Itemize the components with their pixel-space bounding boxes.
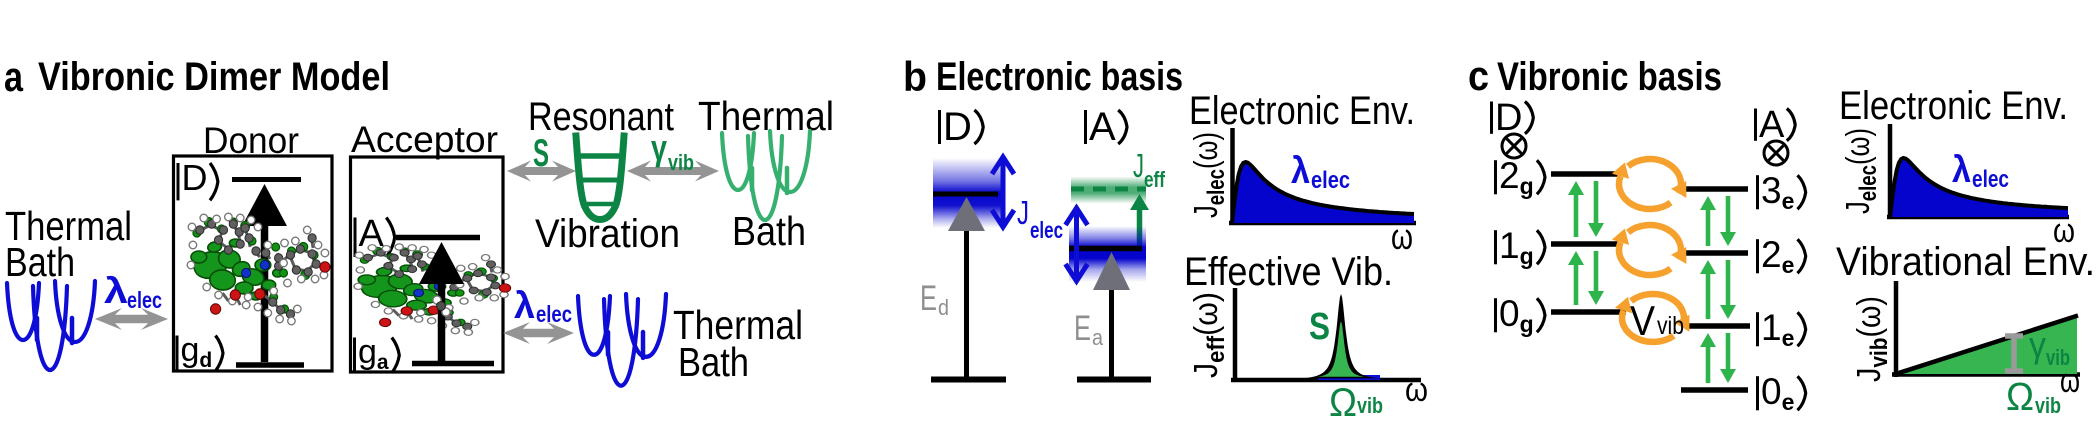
svg-text:Bath: Bath [5, 239, 75, 285]
svg-text:3: 3 [1761, 170, 1782, 211]
electronic spectral density axes panel b [1230, 128, 1235, 225]
svg-text:Donor: Donor [203, 120, 299, 161]
J_eff label [1133, 147, 1166, 192]
vibrational ladder arrows donor 1g-0g (green) [1574, 262, 1579, 305]
coupling label lambda_elec left [104, 270, 162, 313]
svg-text:E: E [1074, 309, 1091, 348]
donor excitation arrow [261, 222, 269, 362]
svg-text:2: 2 [1761, 234, 1782, 275]
ket |0_g> [1496, 293, 1546, 337]
svg-text:D: D [943, 105, 972, 149]
svg-text:vib: vib [668, 150, 694, 175]
acceptor molecule atoms overlapping arrow [433, 296, 450, 316]
svg-text:V: V [1630, 297, 1655, 344]
svg-text:vib: vib [1657, 312, 1684, 340]
svg-text:elec: elec [1311, 167, 1350, 194]
svg-text:Electronic basis: Electronic basis [936, 55, 1183, 99]
svg-text:g: g [1520, 173, 1534, 199]
svg-text:D: D [182, 157, 208, 198]
vibrational ladder arrows donor 2g-1g (green) [1574, 192, 1579, 237]
effective vib Lorentzian peak (green) [1301, 294, 1381, 378]
E_d transition arrow (gray head) [948, 197, 985, 231]
Omega_vib label panel c plot [2006, 376, 2061, 419]
thermal bath potential curves bottom (blue) [578, 294, 666, 386]
ket |1_g> [1496, 225, 1546, 269]
svg-text:Jeff(ω): Jeff(ω) [1187, 292, 1230, 378]
E_d label [920, 279, 949, 320]
V_vib label [1630, 297, 1684, 344]
acceptor ground level line [412, 361, 494, 367]
coupling arrow right (gray) [503, 322, 574, 344]
donor ket |D> panel b [940, 105, 984, 149]
svg-text:0: 0 [1499, 293, 1520, 334]
electronic spectral density curve panel b (blue) [1232, 162, 1414, 223]
svg-text:d: d [199, 349, 212, 372]
svg-text:Acceptor: Acceptor [351, 119, 498, 160]
svg-text:g: g [1520, 243, 1534, 269]
donor ground state ket |g_d> [177, 331, 223, 372]
svg-text:g: g [358, 333, 377, 371]
donor excited level line [232, 177, 301, 182]
E_a transition arrow (gray head) [1093, 252, 1130, 290]
ket |3_e> [1758, 170, 1806, 214]
svg-text:a: a [377, 351, 389, 374]
svg-text:d: d [938, 295, 949, 320]
electronic coupling fluctuation arrow (blue, acceptor) [1066, 208, 1088, 281]
svg-text:0: 0 [1761, 371, 1782, 412]
vibrational ladder arrows acceptor 3e-2e (green) [1706, 207, 1711, 246]
effective vib spectral density axes [1233, 288, 1238, 382]
svg-text:λ: λ [1952, 149, 1971, 190]
residual electronic density (blue line under peak) [1318, 375, 1380, 380]
coherent exchange cycle top (orange) [1628, 159, 1681, 193]
svg-text:Vibrational Env.: Vibrational Env. [1836, 240, 2095, 284]
electronic spectral density curve panel c (blue) [1890, 158, 2068, 217]
vibrational ladder arrows acceptor 2e-1e (green) [1706, 271, 1711, 319]
svg-text:e: e [1782, 188, 1795, 214]
coupling arrow left (gray) [95, 308, 168, 330]
svg-text:Vibronic basis: Vibronic basis [1497, 55, 1722, 99]
gamma_vib width marker (gray I-beam) [2005, 336, 2023, 371]
svg-text:Ω: Ω [1329, 381, 1357, 425]
donor vibrational level lines [1551, 171, 1618, 177]
svg-text:Electronic Env.: Electronic Env. [1189, 89, 1415, 133]
svg-text:vib: vib [1357, 393, 1383, 418]
svg-text:Vibronic Dimer Model: Vibronic Dimer Model [38, 55, 390, 99]
acceptor vibrational level lines [1681, 186, 1748, 192]
acceptor ground state ket |g_a> [355, 333, 400, 374]
thermal bath potential curves top right (green) [722, 131, 810, 220]
svg-text:e: e [1782, 325, 1795, 351]
acceptor level line panel b [1069, 246, 1142, 252]
svg-text:A: A [1759, 104, 1785, 146]
thermal bath potential curves left (blue) [7, 281, 95, 370]
svg-text:a: a [1092, 325, 1104, 350]
svg-text:vib: vib [2035, 393, 2061, 418]
coherent exchange cycle middle (orange) [1628, 225, 1681, 259]
ket |2_e> [1758, 234, 1806, 278]
donor ket |D> panel c [1492, 97, 1534, 139]
acceptor excitation arrow [438, 280, 446, 362]
svg-text:J: J [1133, 147, 1144, 184]
acceptor broadened level (blue gradient band) [1069, 226, 1146, 282]
svg-text:γ: γ [2029, 324, 2046, 365]
acceptor excited level line [396, 235, 480, 241]
donor ground line panel b [931, 377, 1006, 383]
vibrational ladder arrows acceptor 1e-0e (green) [1706, 344, 1711, 383]
Omega_vib label panel b plot [1329, 381, 1383, 425]
svg-text:Ω: Ω [2006, 376, 2034, 419]
J_elec label [1017, 194, 1063, 243]
svg-text:λ: λ [514, 285, 535, 326]
donor level line panel b [933, 192, 998, 197]
donor box [174, 156, 333, 371]
donor excited state ket |D> [178, 157, 218, 200]
lambda_elec label panel b plot [1291, 150, 1350, 194]
coupling arrow S (gray) [507, 161, 576, 182]
coherent exchange cycle bottom (orange) [1631, 294, 1684, 327]
coupling label lambda_elec right [514, 285, 572, 327]
donor broadened level (blue gradient band) [933, 158, 1002, 228]
vibrational spectral density axes panel c [1894, 281, 1899, 377]
svg-text:γ: γ [651, 127, 667, 168]
resonant mode potential (green parabola with levels) [576, 136, 624, 220]
svg-text:Bath: Bath [678, 339, 749, 385]
svg-text:2: 2 [1499, 155, 1520, 196]
svg-text:E: E [920, 279, 937, 318]
svg-text:ω: ω [1405, 371, 1428, 409]
svg-text:elec: elec [536, 301, 572, 327]
svg-text:Effective Vib.: Effective Vib. [1184, 250, 1393, 294]
ket |0_e> [1758, 371, 1806, 415]
svg-text:elec: elec [1030, 217, 1063, 243]
acceptor effective level (green gradient band) [1071, 177, 1146, 203]
svg-text:g: g [1520, 311, 1534, 337]
ket |1_e> [1758, 307, 1806, 351]
coupling arrow gamma_vib (gray) [627, 161, 719, 182]
acceptor ground line panel b [1077, 377, 1151, 383]
svg-text:b: b [903, 53, 927, 100]
svg-text:A: A [1089, 105, 1116, 149]
lambda_elec label panel c plot [1952, 149, 2009, 193]
svg-text:c: c [1468, 52, 1489, 99]
svg-text:S: S [1309, 306, 1330, 348]
svg-text:Electronic Env.: Electronic Env. [1839, 84, 2068, 128]
E_a label [1074, 309, 1104, 350]
vibrational (ohmic) spectral density triangle (green) [1896, 316, 2077, 374]
acceptor excited state ket |A> [355, 213, 395, 257]
acceptor ket |A> panel b [1086, 105, 1128, 149]
svg-text:elec: elec [1972, 166, 2009, 193]
ket |2_g> [1496, 155, 1546, 199]
acceptor effective level dashed line [1071, 187, 1146, 192]
svg-text:elec: elec [127, 287, 162, 313]
svg-text:1: 1 [1761, 307, 1782, 348]
svg-text:e: e [1782, 389, 1795, 415]
electronic spectral density axes panel c [1888, 124, 1893, 219]
tensor product symbol donor [1502, 134, 1526, 158]
acceptor ket |A> panel c [1756, 104, 1796, 146]
svg-text:D: D [1495, 97, 1522, 139]
svg-text:ω: ω [2060, 362, 2080, 400]
svg-text:a: a [4, 53, 24, 100]
svg-text:g: g [181, 331, 200, 369]
acceptor box [351, 157, 504, 372]
tensor product symbol acceptor [1764, 141, 1788, 165]
gamma_vib label panel c plot [2029, 324, 2070, 370]
svg-text:ω: ω [1391, 216, 1413, 257]
svg-text:1: 1 [1499, 225, 1520, 266]
svg-text:J: J [1017, 194, 1029, 231]
svg-text:λ: λ [104, 270, 128, 311]
vibrational damping label gamma_vib [651, 127, 694, 175]
J_eff arrow (green) [1137, 207, 1143, 248]
donor molecule [187, 213, 330, 325]
svg-text:Thermal: Thermal [698, 93, 834, 139]
acceptor molecule [354, 244, 511, 336]
donor ground level line [236, 362, 304, 368]
svg-text:eff: eff [1144, 167, 1166, 192]
svg-text:λ: λ [1291, 150, 1310, 191]
electronic coupling fluctuation arrow (blue, donor) [992, 157, 1014, 227]
svg-text:e: e [1782, 252, 1795, 278]
